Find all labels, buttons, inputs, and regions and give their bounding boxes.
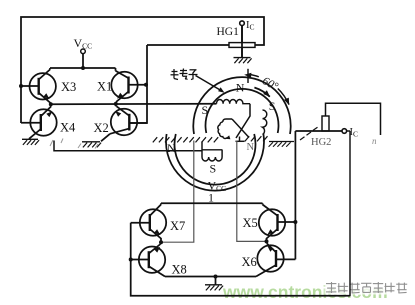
node Vcc on rail	[81, 66, 85, 70]
wire X4 lower-left corner	[20, 122, 22, 124]
node junction left column / X3 base	[19, 84, 23, 88]
node X8 base	[129, 258, 133, 262]
svg-text:IC: IC	[246, 20, 255, 32]
transistor X6	[256, 241, 295, 276]
svg-text:S: S	[202, 103, 209, 117]
stator inner arc upper	[206, 89, 279, 133]
node X3/X4 emitters	[49, 102, 53, 106]
svg-text:X5: X5	[243, 216, 258, 230]
node X1 base to HG1 column	[144, 83, 148, 87]
svg-text:X4: X4	[60, 121, 76, 135]
Vcc terminal circle	[81, 49, 86, 54]
winding W2 coil	[202, 142, 222, 162]
transistor X1	[111, 68, 146, 102]
ground bar right pole	[269, 142, 294, 147]
wire upper Vcc rail y=68	[50, 67, 116, 69]
transistor X4	[21, 107, 57, 139]
svg-text:X6: X6	[242, 255, 257, 269]
label rotor 转子	[171, 69, 188, 80]
wire HG1 left lead	[147, 44, 229, 46]
stator outer arc lower	[166, 134, 264, 191]
wire motor left lead down to X7/X8 node	[162, 141, 194, 243]
ground	[82, 142, 101, 148]
wire HG2 output to down column	[347, 130, 350, 132]
60 degree arc with arrows	[248, 74, 259, 77]
wire emitter node column X3/X4	[50, 103, 52, 107]
wire bridge output to motor winding W1	[51, 103, 217, 106]
winding W1 coil	[217, 99, 251, 103]
rotor core small arrow	[225, 135, 230, 139]
hall sensor HG2 body	[322, 116, 329, 131]
wire HG2 left column down to X5 base	[294, 131, 296, 259]
wire HG1 stem through body	[241, 26, 243, 58]
wire HG1 output column x=147	[129, 45, 147, 123]
wire HG2 top loop	[326, 103, 381, 135]
svg-text:n: n	[372, 136, 377, 146]
svg-text:X3: X3	[61, 80, 76, 94]
pole hatch left	[153, 137, 218, 142]
stator inner arc lower	[175, 134, 256, 185]
wire HG1 output stem	[241, 26, 243, 43]
node X5/X6 emitters	[265, 239, 269, 243]
hall sensor HG1 body	[229, 43, 255, 48]
svg-text:X2: X2	[94, 121, 109, 135]
stator outer arc upper	[193, 77, 290, 134]
svg-text:N: N	[247, 142, 255, 153]
svg-text:S: S	[269, 99, 276, 113]
transistor X3	[21, 68, 56, 103]
node X5 base	[293, 220, 297, 224]
wire bus ground stem	[215, 277, 217, 285]
pole hatch right	[245, 136, 268, 141]
HG1 output terminal circle	[240, 21, 245, 26]
winding coil right side	[263, 110, 267, 135]
node X1/X2 emitters	[114, 102, 118, 106]
rotor core diagonal	[232, 119, 249, 138]
HG2 output terminal circle	[342, 129, 347, 134]
rotor core tick	[239, 137, 241, 142]
svg-text:S: S	[210, 162, 217, 176]
transistor X5	[259, 203, 296, 241]
svg-text:X8: X8	[172, 263, 187, 277]
wire top rail from left column to HG1 box	[21, 17, 264, 123]
node X7/X8 emitters	[159, 240, 163, 244]
ground under HG1	[241, 47, 243, 57]
svg-text:X7: X7	[170, 219, 185, 233]
decorative faint marks	[50, 139, 98, 149]
wire lower emitter bus	[165, 276, 256, 278]
rotor core winding scallops	[218, 122, 227, 138]
svg-text:X1: X1	[97, 80, 112, 94]
transistor X2	[101, 106, 147, 141]
ground	[205, 285, 223, 291]
rotor pointer line	[196, 76, 222, 91]
rotor position tick at N pole	[247, 69, 249, 83]
svg-text:N: N	[236, 80, 245, 94]
wire X7/X8 base column	[131, 223, 350, 296]
wire upper bridge lower output to motor	[54, 141, 202, 151]
svg-text:N: N	[167, 141, 176, 155]
transistor X7	[131, 203, 167, 242]
wire HG2 output column down to bottom rail	[349, 131, 351, 296]
ground	[234, 58, 252, 64]
wire emitter node column X1/X2	[115, 102, 117, 106]
wire lower Vcc rail	[161, 202, 263, 204]
wire motor right lead down to X5/X6 node	[237, 141, 266, 242]
wire W2 top bar	[202, 149, 222, 151]
node bus center	[214, 275, 218, 279]
watermark gray text 传感器选型专家	[325, 281, 339, 295]
wire W1 right lead into rotor	[236, 104, 250, 138]
rotor core top bar	[223, 119, 232, 122]
ground	[22, 139, 39, 145]
wire Vcc stem to rail	[82, 54, 84, 68]
svg-text:HG1: HG1	[217, 26, 240, 38]
svg-text:IC: IC	[350, 127, 359, 139]
svg-text:HG2: HG2	[311, 137, 331, 148]
wire HG2 bottom lead	[295, 130, 342, 132]
transistor X8	[131, 242, 166, 276]
rotation direction arrow	[254, 88, 269, 97]
dashed link to HG2	[300, 127, 318, 140]
